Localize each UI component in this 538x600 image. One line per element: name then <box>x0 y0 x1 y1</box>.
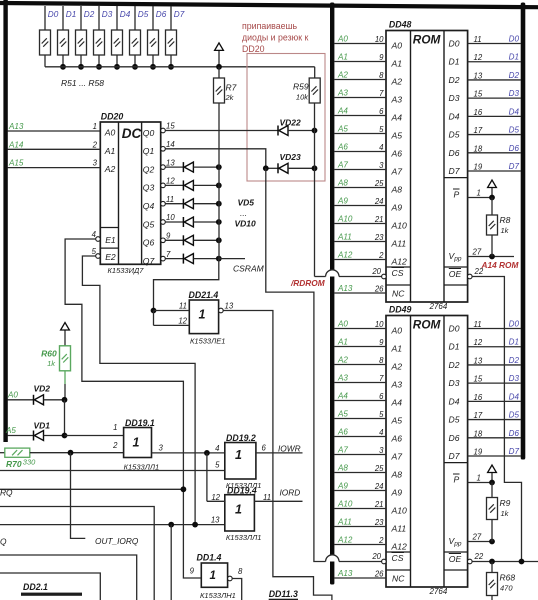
node A0 input <box>7 390 34 400</box>
junction diode column Q4 <box>216 201 222 207</box>
svg-text:R51 ... R58: R51 ... R58 <box>61 78 104 88</box>
svg-text:18: 18 <box>474 144 483 153</box>
resistor R70 330 (green) <box>0 448 36 469</box>
svg-text:К1533ИД7: К1533ИД7 <box>108 266 145 275</box>
svg-text:Q4: Q4 <box>143 201 155 211</box>
svg-text:27: 27 <box>472 533 482 542</box>
svg-text:D3: D3 <box>449 378 460 388</box>
wire y506 corner <box>0 507 154 600</box>
svg-text:Q1: Q1 <box>143 146 155 156</box>
svg-text:4: 4 <box>215 444 220 453</box>
svg-text:DD19.4: DD19.4 <box>227 486 257 496</box>
wire y555 corner <box>0 555 137 600</box>
svg-text:P: P <box>454 190 460 200</box>
svg-text:VD10: VD10 <box>235 219 257 229</box>
svg-text:Q6: Q6 <box>143 238 155 248</box>
resistor R56 <box>130 6 141 67</box>
annotation red box <box>247 54 325 182</box>
svg-text:A0: A0 <box>337 320 348 329</box>
DD20 output Q6 pin 9 bubble <box>161 232 171 243</box>
svg-text:D7: D7 <box>449 451 461 461</box>
svg-text:D5: D5 <box>509 411 520 420</box>
svg-text:7: 7 <box>379 374 384 383</box>
resistor R59 10k <box>293 67 320 103</box>
svg-text:11: 11 <box>263 493 271 502</box>
svg-text:CSRAM: CSRAM <box>233 263 265 273</box>
svg-text:12: 12 <box>474 338 483 347</box>
svg-text:A11: A11 <box>391 524 407 534</box>
resistor R7 2k <box>214 67 237 103</box>
svg-text:E2: E2 <box>105 252 116 262</box>
node D3 wire from DD48 pin 15 <box>468 89 521 99</box>
address bus (vertical thick bus line) <box>330 3 334 585</box>
svg-text:A5: A5 <box>391 131 403 141</box>
node A5 input <box>5 426 34 436</box>
svg-text:A11: A11 <box>391 239 407 249</box>
svg-text:1k: 1k <box>47 359 56 368</box>
svg-text:ROM: ROM <box>413 318 442 332</box>
diode VD6 on Q3 <box>165 180 219 190</box>
junction R55 bottom <box>114 64 120 70</box>
power +5V arrow (R60) <box>61 323 70 346</box>
svg-text:D0: D0 <box>449 39 460 49</box>
svg-text:D1: D1 <box>509 338 519 347</box>
svg-text:/RDROM: /RDROM <box>290 278 326 288</box>
label Q (cut) <box>0 537 7 547</box>
gate DD19.2 (OR, К1533ЛЛ1) <box>215 433 261 490</box>
wire OUT_IORQ stub <box>71 453 86 539</box>
junction VD1 / DD19.1 pin1 <box>62 433 124 439</box>
node A5 wire to DD49 pin 5 <box>334 410 386 420</box>
label /RDROM <box>290 278 326 288</box>
svg-text:D5: D5 <box>449 415 460 425</box>
junction VD23 cathode / Q1 <box>263 165 269 171</box>
svg-text:D5: D5 <box>449 130 460 140</box>
svg-text:3: 3 <box>93 159 98 168</box>
svg-text:A9: A9 <box>391 488 403 498</box>
svg-text:5: 5 <box>379 125 384 134</box>
svg-text:D1: D1 <box>449 342 460 352</box>
resistor R9 1k <box>487 483 511 542</box>
svg-text:D5: D5 <box>138 10 149 19</box>
svg-text:6: 6 <box>379 107 384 116</box>
wire Q0 to VD22 <box>165 130 278 132</box>
svg-text:13: 13 <box>166 158 175 167</box>
junction VD22 anode / R59 <box>312 128 318 134</box>
DD20 output Q2 pin 13 bubble <box>161 158 176 169</box>
svg-text:VD5: VD5 <box>238 198 255 208</box>
svg-text:6: 6 <box>379 392 384 401</box>
node A10 wire to DD49 pin 21 <box>334 500 386 510</box>
svg-text:11: 11 <box>474 320 482 329</box>
DD20 output Q4 pin 11 bubble <box>161 195 174 206</box>
svg-text:10: 10 <box>375 35 384 44</box>
node A13 input wire to DD20 pin 1 <box>8 122 101 131</box>
svg-text:A9: A9 <box>337 482 348 491</box>
junction R58 bottom <box>168 64 174 70</box>
svg-text:A15: A15 <box>8 159 24 168</box>
svg-text:A10: A10 <box>337 500 353 509</box>
svg-text:D4: D4 <box>120 10 131 19</box>
svg-text:A2: A2 <box>391 77 403 87</box>
svg-text:R70: R70 <box>6 459 22 469</box>
svg-text:D3: D3 <box>509 374 520 383</box>
svg-text:A14: A14 <box>8 140 24 149</box>
node D1 wire from DD48 pin 12 <box>468 53 521 63</box>
node A15 input wire to DD20 pin 3 <box>8 159 101 168</box>
wire DD49 OE row to right edge <box>472 561 538 563</box>
wire IORD output stub <box>254 487 302 502</box>
svg-text:4: 4 <box>379 428 384 437</box>
svg-text:D3: D3 <box>449 93 460 103</box>
svg-text:1: 1 <box>93 122 97 131</box>
svg-text:3: 3 <box>379 161 384 170</box>
svg-text:23: 23 <box>374 233 384 242</box>
svg-text:A3: A3 <box>337 89 348 98</box>
svg-text:IOWR: IOWR <box>278 443 301 453</box>
svg-text:Q7: Q7 <box>143 256 156 266</box>
svg-text:A10: A10 <box>337 215 353 224</box>
svg-text:5: 5 <box>379 410 384 419</box>
DD1.4 output pin 8 bubble <box>228 567 243 581</box>
diode VD5 on Q2 <box>165 162 219 172</box>
annotation red text <box>242 21 309 54</box>
label RQ (cut) <box>0 488 13 498</box>
svg-text:A12: A12 <box>391 542 408 552</box>
resistor R60 1k (green) <box>41 346 70 371</box>
junction R7 top <box>216 64 222 70</box>
wire DD48 P pin 1 with power arrow <box>468 180 497 200</box>
node A0 wire to DD48 pin 10 <box>334 35 386 45</box>
svg-text:D3: D3 <box>102 10 113 19</box>
svg-text:К1533ЛН1: К1533ЛН1 <box>200 591 236 600</box>
node D6 wire from DD48 pin 18 <box>468 144 521 154</box>
junction pin13 row branch down <box>168 522 174 600</box>
wire DD1.4 out <box>232 579 242 600</box>
svg-text:A6: A6 <box>391 434 403 444</box>
svg-text:D0: D0 <box>48 10 59 19</box>
svg-text:12: 12 <box>211 493 220 502</box>
junction R57 bottom <box>150 64 156 70</box>
svg-text:25: 25 <box>374 179 384 188</box>
wire left edge to E1 column (y489) <box>0 486 186 492</box>
svg-text:DD20: DD20 <box>101 112 124 122</box>
svg-text:NC: NC <box>392 289 405 299</box>
svg-text:D4: D4 <box>509 392 520 401</box>
svg-text:OE: OE <box>449 269 462 279</box>
svg-text:D0: D0 <box>509 35 520 44</box>
svg-text:12: 12 <box>178 316 187 325</box>
svg-text:A8: A8 <box>391 470 403 480</box>
svg-text:CS: CS <box>392 553 404 563</box>
svg-text:9: 9 <box>190 567 195 576</box>
svg-text:Q0: Q0 <box>143 128 155 138</box>
node A1 wire to DD49 pin 9 <box>334 338 386 348</box>
node D0 (data line label) <box>48 10 59 19</box>
svg-text:VD1: VD1 <box>34 421 51 431</box>
junction diode column Q3 <box>216 183 222 189</box>
svg-text:VD23: VD23 <box>280 152 302 162</box>
node D5 (data line label) <box>138 10 149 19</box>
node D0 wire from DD48 pin 11 <box>468 35 521 45</box>
node D4 wire from DD48 pin 16 <box>468 107 521 117</box>
node D7 wire from DD48 pin 19 <box>468 162 521 172</box>
DD48 CS pin 20 bubble <box>371 267 386 279</box>
svg-text:D2: D2 <box>449 75 460 85</box>
label R51 ... R58 <box>61 78 104 88</box>
svg-text:24: 24 <box>374 197 384 206</box>
resistor R57 <box>148 6 159 67</box>
DD20 pin 4 E1 bubble <box>92 230 101 241</box>
svg-text:17: 17 <box>474 411 483 420</box>
resistor R54 <box>94 6 105 67</box>
node A11 wire to DD49 pin 23 <box>334 518 386 528</box>
svg-text:470: 470 <box>500 584 513 593</box>
node A2 wire to DD48 pin 8 <box>334 71 386 81</box>
junction DD19.1 out / DD19.4 pin12 branch <box>204 450 210 501</box>
node A0 wire to DD49 pin 10 <box>334 320 386 330</box>
svg-text:RQ: RQ <box>0 488 13 498</box>
svg-text:14: 14 <box>166 140 175 149</box>
svg-text:16: 16 <box>474 393 483 402</box>
wire net /RDROM (R59 to DD48 CS) <box>315 103 387 277</box>
svg-text:D6: D6 <box>156 10 167 19</box>
diode VD23 <box>266 152 315 173</box>
wire E2 net <box>82 256 195 525</box>
node D7 (data line label) <box>174 10 185 19</box>
DD49 OE pin 22 bubble <box>468 552 484 564</box>
ROM DD48 2764 <box>386 20 468 312</box>
svg-text:D0: D0 <box>449 324 460 334</box>
svg-text:A8: A8 <box>337 464 348 473</box>
svg-text:припаиваешь: припаиваешь <box>242 21 298 31</box>
svg-text:A2: A2 <box>337 71 348 80</box>
junction R56 bottom <box>132 64 138 70</box>
diode VD8 on Q5 <box>165 217 219 227</box>
node A5 wire to DD48 pin 5 <box>334 125 386 135</box>
svg-text:A13: A13 <box>8 122 24 131</box>
svg-text:5: 5 <box>92 247 97 256</box>
svg-text:R59: R59 <box>293 82 309 92</box>
svg-text:26: 26 <box>374 285 384 294</box>
svg-text:5: 5 <box>215 461 220 470</box>
svg-text:Q2: Q2 <box>143 164 155 174</box>
svg-text:A5: A5 <box>337 410 348 419</box>
svg-text:D3: D3 <box>509 89 520 98</box>
svg-text:D2: D2 <box>449 360 460 370</box>
DD20 output Q0 pin 15 bubble <box>161 122 176 133</box>
junction diode column Q5 <box>216 219 222 225</box>
svg-text:A9: A9 <box>337 197 348 206</box>
resistor R8 1k <box>487 198 511 257</box>
svg-text:2: 2 <box>378 536 384 545</box>
svg-text:NC: NC <box>392 574 405 584</box>
wire pullup rail to R7/R59 <box>45 66 315 68</box>
junction DD21.4 input tie <box>151 308 157 326</box>
svg-text:A5: A5 <box>337 125 348 134</box>
node D5 wire from DD48 pin 17 <box>468 126 521 136</box>
node D1 wire from DD49 pin 12 <box>468 338 521 348</box>
svg-text:2: 2 <box>378 251 384 260</box>
node A13 wire to DD48 pin 26 (NC) <box>334 284 386 294</box>
svg-text:D1: D1 <box>66 10 76 19</box>
node D7 wire from DD49 pin 19 <box>468 447 521 457</box>
gate DD19.1 (OR, К1533ЛЛ1) <box>112 418 159 472</box>
junction diode column Q7 <box>216 256 222 262</box>
svg-text:R9: R9 <box>500 498 511 508</box>
svg-text:CS: CS <box>392 268 404 278</box>
svg-text:1: 1 <box>235 503 242 517</box>
svg-text:A2: A2 <box>337 356 348 365</box>
wire IOWR output stub <box>256 443 303 453</box>
diode VD7 on Q4 <box>165 199 219 209</box>
node A9 wire to DD49 pin 24 <box>334 482 386 492</box>
svg-text:19: 19 <box>474 163 483 172</box>
junction DD49 OE / R68 <box>489 559 495 565</box>
svg-text:21: 21 <box>374 215 384 224</box>
wire R60 to VD2 junction <box>64 371 66 400</box>
svg-text:22: 22 <box>474 552 484 561</box>
DD48 OE pin 22 bubble <box>468 267 484 279</box>
svg-text:A8: A8 <box>391 185 403 195</box>
label VD5 ... VD10 <box>235 198 257 229</box>
wire DD21.4 out <box>223 311 332 600</box>
svg-text:7: 7 <box>166 250 171 259</box>
node A9 wire to DD48 pin 24 <box>334 197 386 207</box>
diode VD10 on Q7 <box>165 254 219 264</box>
svg-text:DD19.1: DD19.1 <box>125 418 155 428</box>
node D3 (data line label) <box>102 10 113 19</box>
node D2 wire from DD48 pin 13 <box>468 71 521 81</box>
svg-text:1: 1 <box>477 474 481 483</box>
svg-text:8: 8 <box>379 356 384 365</box>
svg-text:A4: A4 <box>337 107 348 116</box>
svg-text:4: 4 <box>92 230 97 239</box>
svg-text:E1: E1 <box>105 235 116 245</box>
svg-text:1: 1 <box>133 436 140 450</box>
svg-text:A2: A2 <box>104 164 116 174</box>
svg-text:A1: A1 <box>337 53 348 62</box>
DD20 output Q7 pin 7 bubble <box>161 250 171 261</box>
svg-text:9: 9 <box>379 338 384 347</box>
svg-text:A8: A8 <box>337 179 348 188</box>
node A12 wire to DD49 pin 2 <box>334 536 386 546</box>
svg-text:D1: D1 <box>449 57 460 67</box>
DD20 output Q1 pin 14 bubble <box>161 140 176 151</box>
svg-text:OE: OE <box>449 554 462 564</box>
bus hop arc at DD49 CS <box>326 555 339 562</box>
svg-text:A0: A0 <box>104 128 116 138</box>
svg-text:D6: D6 <box>449 433 460 443</box>
svg-text:24: 24 <box>374 482 384 491</box>
node A3 wire to DD48 pin 7 <box>334 89 386 99</box>
svg-text:К1533ЛЛ1: К1533ЛЛ1 <box>226 533 262 542</box>
svg-text:D6: D6 <box>509 429 520 438</box>
wire DD49 P pin 1 with power arrow <box>468 465 497 485</box>
svg-text:IORD: IORD <box>280 487 301 497</box>
svg-text:A1: A1 <box>337 338 348 347</box>
svg-text:DC: DC <box>122 126 142 141</box>
DD20 pin 5 E2 bubble <box>92 247 101 258</box>
svg-text:1k: 1k <box>501 509 510 518</box>
svg-text:2: 2 <box>112 441 118 450</box>
svg-text:2k: 2k <box>225 93 235 102</box>
svg-text:A13: A13 <box>337 569 353 578</box>
node A10 wire to DD48 pin 21 <box>334 215 386 225</box>
svg-text:A5: A5 <box>5 426 16 435</box>
node A2 wire to DD49 pin 8 <box>334 356 386 366</box>
svg-text:D1: D1 <box>509 53 519 62</box>
svg-text:A12: A12 <box>337 536 353 545</box>
svg-text:11: 11 <box>166 195 174 204</box>
wire CSRAM stub <box>219 259 265 274</box>
svg-text:P: P <box>454 475 460 485</box>
DD20 output Q3 pin 12 bubble <box>161 177 176 188</box>
wire DD48 Vpp pin 27 <box>468 248 514 260</box>
junction R52 bottom <box>60 64 66 70</box>
svg-text:A14 ROM: A14 ROM <box>481 260 520 270</box>
wire DD49 Vpp pin 27 <box>468 533 495 545</box>
svg-text:A4: A4 <box>391 398 403 408</box>
node A13 wire to DD49 pin 26 (NC) <box>334 569 386 579</box>
svg-text:D6: D6 <box>449 148 460 158</box>
svg-text:A3: A3 <box>391 380 403 390</box>
svg-text:18: 18 <box>474 429 483 438</box>
svg-text:R7: R7 <box>226 83 237 93</box>
resistor R58 <box>166 6 177 67</box>
node D2 (data line label) <box>84 10 95 19</box>
svg-text:К1533ЛЛ1: К1533ЛЛ1 <box>124 463 160 472</box>
label A14 ROM <box>481 260 520 270</box>
svg-text:D0: D0 <box>509 320 520 329</box>
svg-text:DD19.2: DD19.2 <box>226 433 256 443</box>
wire diode common column (R7 pulldown) <box>218 103 220 259</box>
svg-text:Q: Q <box>0 537 7 547</box>
svg-text:25: 25 <box>374 464 384 473</box>
svg-text:11: 11 <box>474 35 482 44</box>
svg-text:15: 15 <box>474 375 483 384</box>
svg-text:1: 1 <box>477 189 481 198</box>
wire A14ROM <box>472 277 521 562</box>
svg-text:диоды и резюк к: диоды и резюк к <box>242 33 309 43</box>
svg-text:D4: D4 <box>449 111 460 121</box>
wire E1 net <box>65 239 201 578</box>
svg-text:7: 7 <box>379 89 384 98</box>
svg-text:23: 23 <box>374 518 384 527</box>
svg-text:A3: A3 <box>337 374 348 383</box>
svg-text:3: 3 <box>159 444 164 453</box>
diode VD2 <box>34 383 65 405</box>
svg-text:20: 20 <box>371 267 381 276</box>
svg-text:27: 27 <box>472 248 482 257</box>
junction R53 bottom <box>78 64 84 70</box>
svg-text:D4: D4 <box>509 107 520 116</box>
svg-text:A4: A4 <box>337 392 348 401</box>
svg-text:A12: A12 <box>337 251 353 260</box>
node A4 wire to DD48 pin 6 <box>334 107 386 117</box>
svg-text:DD21.4: DD21.4 <box>189 290 219 300</box>
svg-text:DD11.3: DD11.3 <box>269 589 298 599</box>
gate DD19.4 (OR, К1533ЛЛ1) <box>207 486 262 542</box>
svg-text:26: 26 <box>374 570 384 579</box>
svg-text:1k: 1k <box>501 226 510 235</box>
svg-text:15: 15 <box>474 90 483 99</box>
wire IORQ row (left edge to DD19.2 pin5) <box>0 470 225 472</box>
svg-text:21: 21 <box>374 500 384 509</box>
gate DD1.4 (inverter, К1533ЛН1) <box>190 553 236 600</box>
svg-text:16: 16 <box>474 108 483 117</box>
svg-text:A2: A2 <box>391 362 403 372</box>
